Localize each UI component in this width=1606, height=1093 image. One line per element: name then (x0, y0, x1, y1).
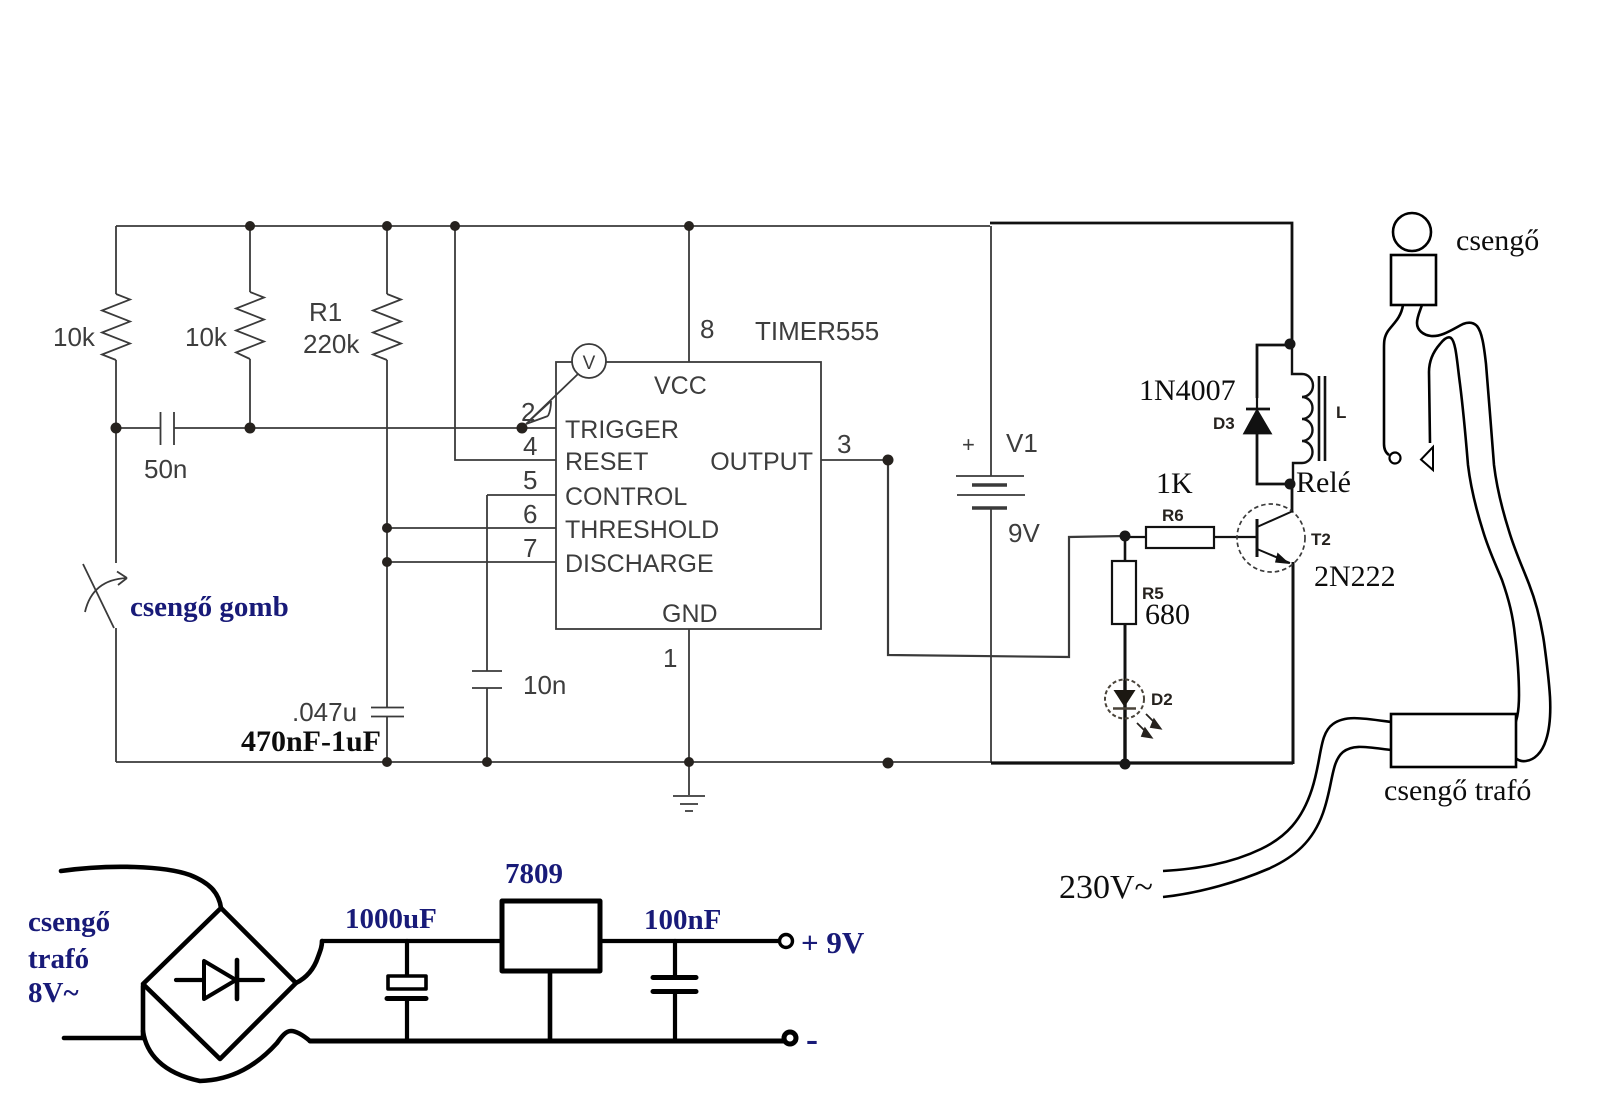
wire DC plus rail (322, 939, 778, 943)
bridge rectifier diamond (143, 908, 296, 1059)
bridge inner diode bar (235, 960, 240, 999)
wire output pin 3 lead (821, 459, 888, 461)
wire emitter to bottom rail (1292, 562, 1295, 764)
svg-text:7: 7 (523, 533, 537, 563)
svg-text:csengő: csengő (28, 906, 110, 938)
svg-text:1K: 1K (1156, 467, 1193, 500)
capacitor 10n (472, 671, 502, 688)
transformer left wire bottom (to 230V) (1163, 747, 1391, 897)
mains input wire top (8V) (61, 867, 221, 908)
svg-text:V: V (583, 353, 596, 374)
svg-text:2: 2 (521, 397, 535, 427)
svg-text:8: 8 (700, 314, 714, 344)
svg-text:230V~: 230V~ (1059, 869, 1153, 906)
resistor 10k (second) (236, 292, 264, 359)
doorbell wire pair outer curve (1417, 305, 1550, 761)
node junction top rail at reset riser (450, 221, 460, 231)
svg-text:4: 4 (523, 431, 537, 461)
svg-text:+ 9V: + 9V (801, 925, 865, 960)
node junction bottom rail at gnd (684, 757, 694, 767)
svg-text:csengő trafó: csengő trafó (1384, 774, 1531, 807)
wire crossing loop under bridge (143, 1031, 310, 1081)
wire relay to collector (1291, 484, 1294, 511)
capacitor 1000uF bottom plate (387, 996, 426, 1001)
bridge inner diode triangle (204, 961, 236, 999)
diode D3 1N4007 cathode bar (1246, 408, 1270, 411)
wire thick top rail to relay (990, 223, 1292, 344)
wire switch lower lead (115, 628, 117, 762)
capacitor 50n (161, 412, 175, 445)
wire R6 leads (1125, 536, 1256, 538)
svg-text:1N4007: 1N4007 (1139, 374, 1236, 407)
svg-text:V1: V1 (1006, 428, 1038, 458)
svg-text:220k: 220k (303, 329, 360, 359)
wire reset riser from top rail to pin 4 (455, 226, 556, 460)
LED D2 circle (1105, 680, 1144, 719)
diode D3 body (1256, 398, 1258, 409)
wire left branch upper (115, 226, 117, 294)
svg-text:1000uF: 1000uF (345, 903, 437, 935)
wire control pin 5 lead (487, 495, 556, 671)
relay core lines (1319, 376, 1325, 461)
resistor R1 220k (373, 294, 401, 360)
wire trigger line right (174, 427, 556, 429)
LED D2 triangle (1114, 690, 1136, 707)
svg-text:-: - (806, 1019, 818, 1059)
svg-text:100nF: 100nF (644, 904, 721, 936)
resistor R5 680 body (1112, 561, 1136, 624)
bell gong circle (1393, 213, 1431, 251)
node junction relay top (1285, 339, 1296, 350)
svg-text:TRIGGER: TRIGGER (565, 416, 679, 444)
ground symbol (673, 762, 705, 811)
svg-text:Relé: Relé (1296, 466, 1351, 499)
node junction top rail at pin8 (684, 221, 694, 231)
switch csengő gomb blade (83, 564, 114, 628)
svg-text:CONTROL: CONTROL (565, 483, 687, 511)
svg-text:2N222: 2N222 (1314, 560, 1396, 593)
transformer csengő trafó box (1391, 714, 1516, 767)
wire battery branch upper (990, 226, 992, 476)
node junction output (883, 455, 894, 466)
LED light arrow 1 (1146, 714, 1161, 729)
wire diode branch bottom (1257, 433, 1290, 484)
doorbell wire pair inner curve (1429, 337, 1519, 729)
svg-text:R6: R6 (1162, 506, 1184, 525)
wire R5 upper lead (1124, 536, 1127, 561)
svg-text:7809: 7809 (505, 858, 563, 890)
wire diode branch top (1257, 345, 1290, 398)
node junction base network (1120, 531, 1131, 542)
svg-text:trafó: trafó (28, 943, 89, 975)
capacitor 1000uF bottom lead (405, 1000, 409, 1039)
node junction trigger at pin 2 (517, 423, 528, 434)
wire GND pin 1 lead (688, 629, 690, 762)
wire switch upper lead (115, 428, 117, 563)
bridge inner diode leads (176, 978, 263, 982)
voltage probe V circle (572, 344, 606, 378)
node junction LED bottom rail (1120, 759, 1131, 770)
svg-text:L: L (1336, 403, 1346, 422)
output terminal + 9V (780, 935, 793, 948)
wire battery branch lower (990, 508, 992, 763)
node junction threshold (382, 523, 392, 533)
svg-text:DISCHARGE: DISCHARGE (565, 550, 714, 578)
bell striker tip triangle (1421, 447, 1433, 470)
capacitor 100nF plates (653, 978, 696, 992)
wire R1 branch down to cap (386, 360, 388, 707)
wire threshold pin 6 lead (387, 527, 556, 529)
bell clapper circle (1390, 453, 1401, 464)
wire 10n to bottom rail (486, 688, 488, 762)
svg-text:10k: 10k (53, 322, 96, 352)
wire 2nd 10k lower lead (249, 359, 251, 428)
probe arrow to trigger pin (526, 374, 578, 424)
wire bridge output S-bend (296, 941, 322, 983)
svg-text:csengő gomb: csengő gomb (130, 591, 289, 623)
transistor T2 circle (1237, 504, 1305, 572)
resistor R6 1K body (1146, 527, 1214, 548)
svg-text:.047u: .047u (292, 697, 357, 727)
wire 10k lower lead (115, 360, 117, 428)
svg-text:GND: GND (662, 600, 718, 628)
transistor T2 base bar (1256, 519, 1259, 557)
svg-text:1: 1 (663, 643, 677, 673)
svg-text:50n: 50n (144, 454, 187, 484)
wire pin 8 VCC lead (688, 226, 690, 362)
svg-text:+: + (962, 432, 975, 457)
svg-text:TIMER555: TIMER555 (755, 316, 879, 346)
svg-text:6: 6 (523, 499, 537, 529)
svg-text:680: 680 (1145, 598, 1190, 631)
bell body box (1391, 255, 1436, 305)
regulator 7809 box (502, 901, 600, 971)
node junction trigger-middle (245, 423, 256, 434)
wire discharge pin 7 lead (387, 561, 556, 563)
transistor T2 emitter stroke (1257, 549, 1290, 563)
svg-text:10k: 10k (185, 322, 228, 352)
mains input wire bottom (8V) (64, 1036, 143, 1041)
node junction top rail at 10k#2 (245, 221, 255, 231)
svg-text:D3: D3 (1213, 414, 1235, 433)
node junction bottom rail at 10n (482, 757, 492, 767)
wire R5 to LED (1124, 624, 1127, 681)
svg-text:THRESHOLD: THRESHOLD (565, 516, 719, 544)
wire bottom input riser to bridge (141, 986, 146, 1038)
svg-text:9V: 9V (1008, 518, 1040, 548)
svg-text:8V~: 8V~ (28, 977, 79, 1009)
wire top supply rail (116, 225, 990, 227)
svg-text:R1: R1 (309, 297, 342, 327)
capacitor 100nF bottom lead (673, 993, 677, 1039)
node junction trigger-left (111, 423, 122, 434)
svg-text:470nF-1uF: 470nF-1uF (241, 725, 381, 758)
switch actuation arc arrow (85, 572, 127, 613)
LED D2 cathode bar (1113, 707, 1136, 710)
svg-text:10n: 10n (523, 670, 566, 700)
LED light arrow 2 (1137, 723, 1152, 738)
wire 2nd 10k branch upper (249, 226, 251, 292)
capacitor .047u / 470nF-1uF (371, 708, 404, 717)
wire cap to bottom rail (386, 717, 388, 763)
bell left arm (1384, 305, 1403, 455)
node junction relay bottom / collector (1285, 479, 1296, 490)
output terminal minus (784, 1032, 796, 1044)
svg-text:D2: D2 (1151, 690, 1173, 709)
transformer left wire top (to 230V) (1163, 718, 1391, 871)
regulator 7809 ground pin (548, 969, 553, 1039)
wire R1 branch upper (386, 226, 388, 294)
node junction bottom rail at cap (382, 757, 392, 767)
wire bottom thick rail (991, 761, 1293, 764)
capacitor 100nF top lead (673, 941, 677, 975)
op-amp/IC 555 box (556, 362, 821, 629)
transistor T2 collector stroke (1257, 511, 1293, 527)
svg-text:VCC: VCC (654, 372, 707, 400)
svg-text:OUTPUT: OUTPUT (710, 448, 813, 476)
relay coil L (1292, 344, 1313, 484)
wire LED to bottom rail (1123, 680, 1126, 764)
capacitor 1000uF top lead (405, 941, 409, 975)
resistor 10k (left) (102, 294, 130, 360)
svg-text:T2: T2 (1311, 530, 1331, 549)
wire bottom ground rail (left thin part) (116, 761, 991, 763)
svg-text:RESET: RESET (565, 448, 648, 476)
wire output routing to transistor base network (888, 460, 1125, 657)
wire trigger line left (116, 427, 160, 429)
battery V1 plates (956, 476, 1025, 495)
transistor emitter arrow (1275, 553, 1290, 565)
capacitor 1000uF top plate (388, 976, 426, 989)
node junction discharge (382, 557, 392, 567)
svg-text:5: 5 (523, 465, 537, 495)
svg-text:csengő: csengő (1456, 224, 1539, 257)
node junction bottom rail at output branch (883, 758, 894, 769)
wire DC minus rail (310, 1039, 787, 1044)
node junction top rail at R1 (382, 221, 392, 231)
svg-text:3: 3 (837, 429, 851, 459)
